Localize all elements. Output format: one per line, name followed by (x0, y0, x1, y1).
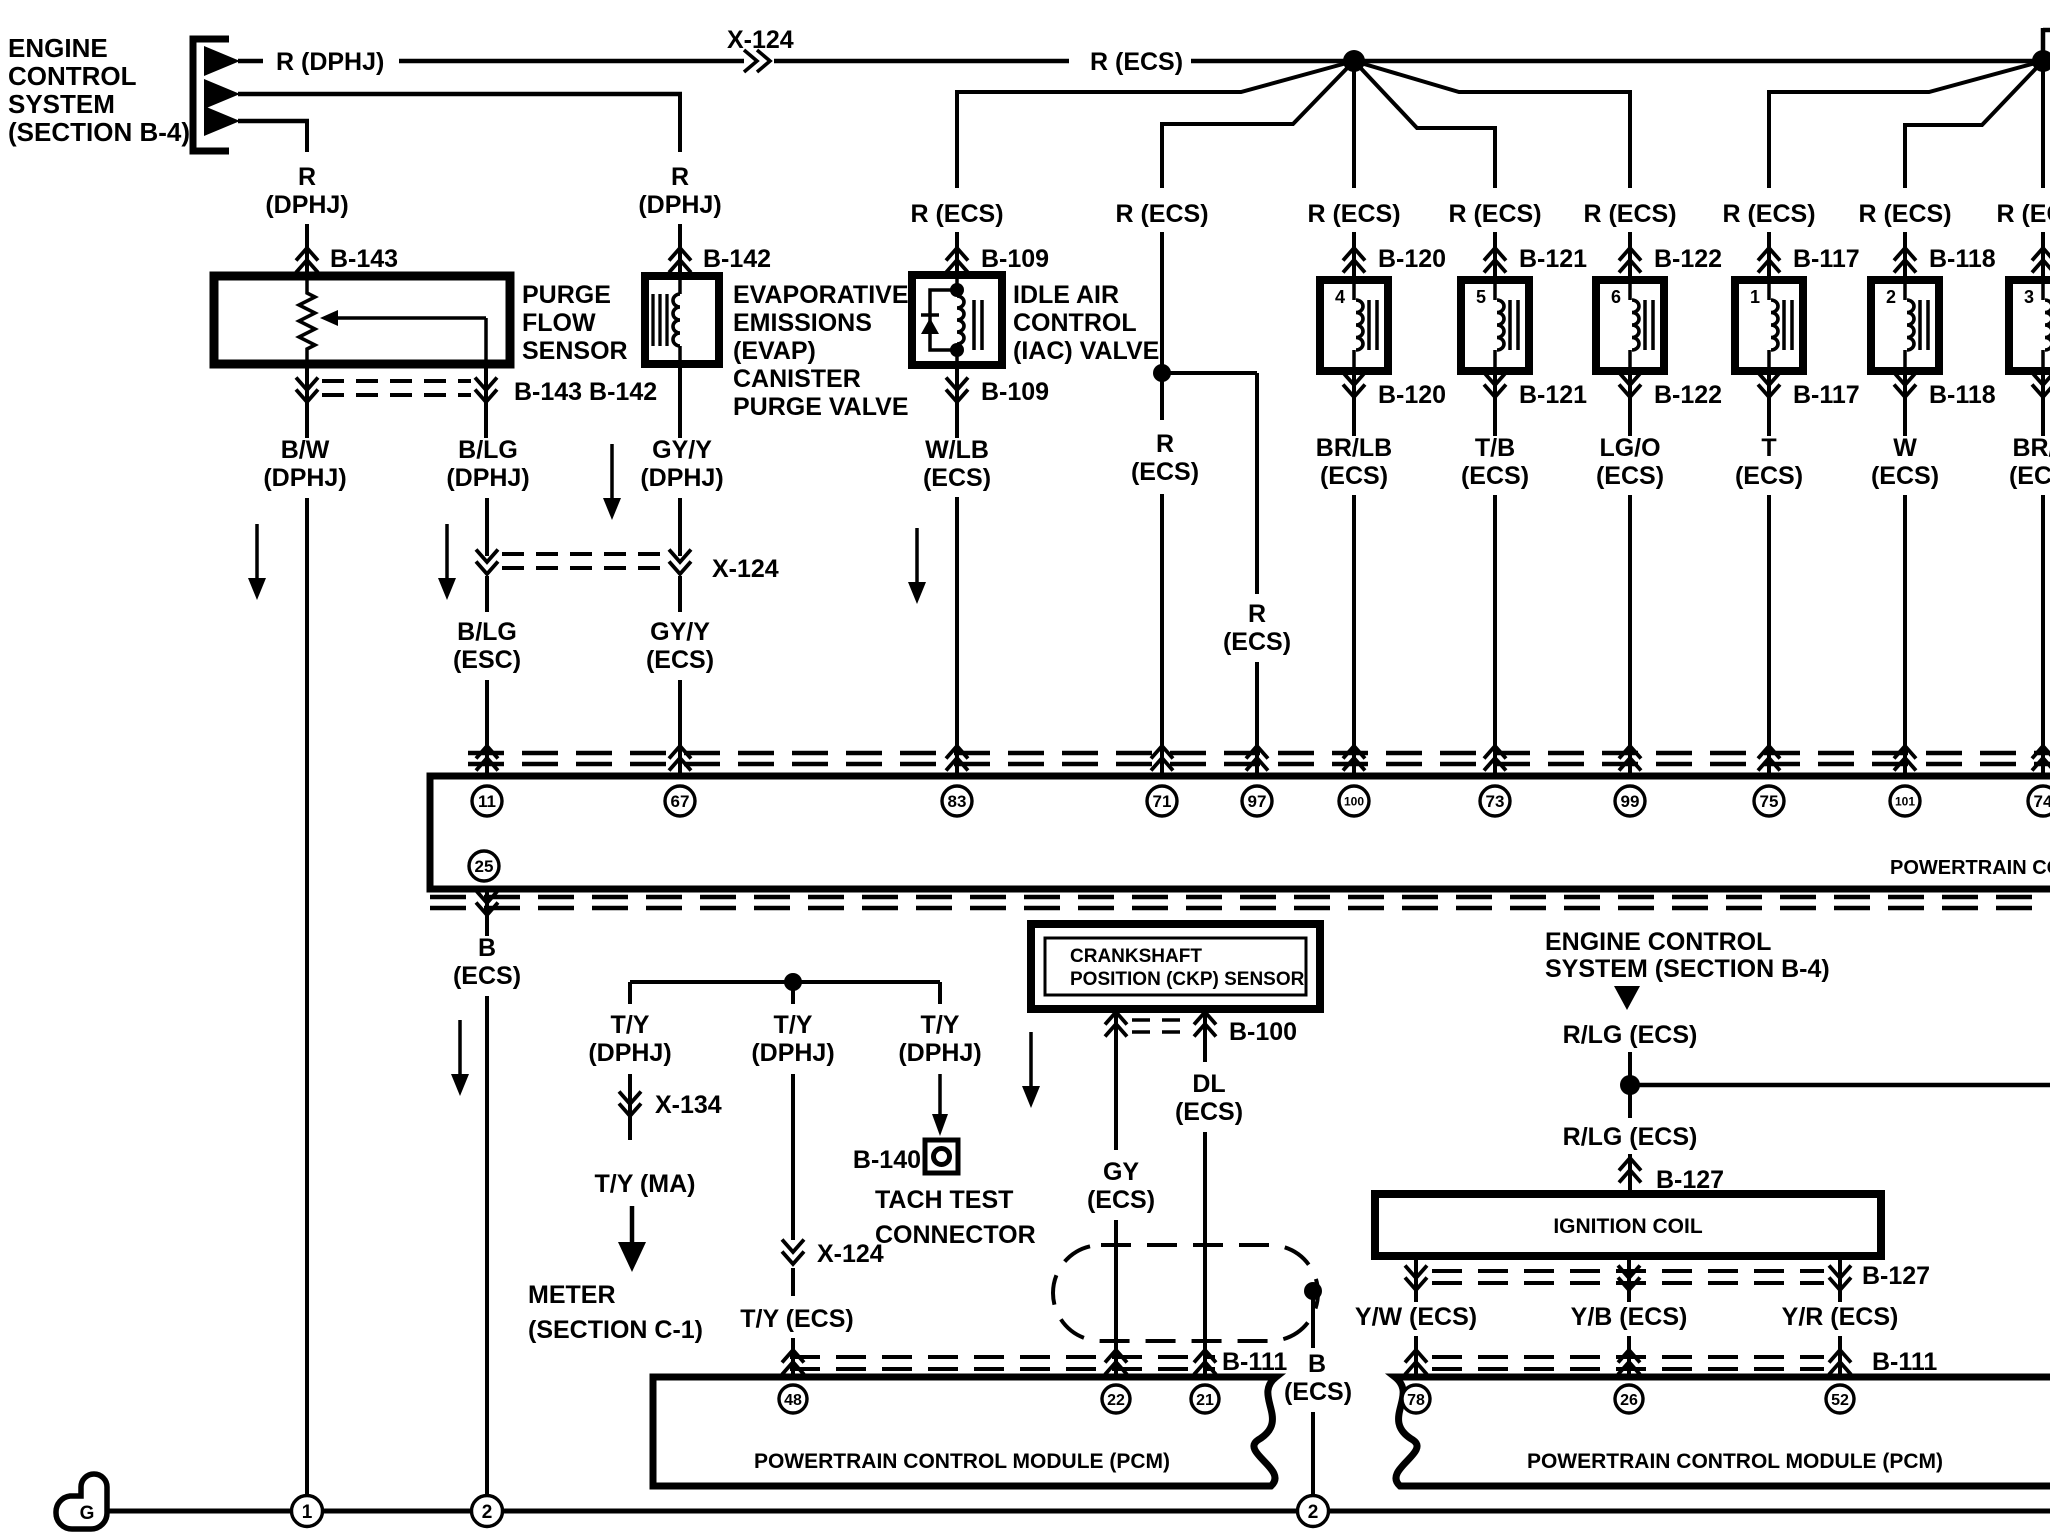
svg-text:W/LB: W/LB (925, 436, 989, 464)
wire injector 4 below (1352, 371, 1356, 436)
svg-text:2: 2 (1308, 1502, 1319, 1523)
svg-text:5: 5 (1476, 287, 1486, 307)
wire W/LB to PCM pin 83 (955, 497, 959, 776)
svg-text:CONNECTOR: CONNECTOR (875, 1221, 1036, 1249)
wire B/LG below sensor (484, 364, 488, 438)
svg-text:B-140: B-140 (853, 1146, 921, 1174)
wire node A to column x1162 (1160, 61, 1354, 124)
svg-text:25: 25 (475, 857, 494, 876)
svg-text:G: G (80, 1503, 95, 1524)
bus chevron at x=487 (476, 746, 498, 759)
injector 5 coil (1497, 300, 1504, 350)
svg-text:B: B (1308, 1350, 1326, 1378)
connector B-119 (bottom) (2032, 373, 2050, 386)
wire B (ECS) to ground pin 2 (485, 996, 489, 1497)
svg-text:SYSTEM: SYSTEM (8, 89, 115, 119)
wire T/Y to X-124 (791, 1074, 795, 1240)
svg-text:2: 2 (482, 1502, 493, 1523)
wire GY/Y to X-124 (678, 498, 682, 556)
wire shield drain B (ECS) (1311, 1291, 1315, 1348)
PCM pin 73 (1480, 786, 1510, 816)
svg-text:ENGINE: ENGINE (8, 33, 108, 63)
node A junction (1343, 50, 1365, 72)
svg-text:T: T (1761, 434, 1776, 462)
wire B (ECS) from pin 25 (485, 889, 489, 936)
bus chevron at x=957 (946, 746, 968, 759)
wire col 957 above connector (955, 232, 959, 276)
svg-text:POWERTRAIN CONTROL MODULE (PCM: POWERTRAIN CONTROL MODULE (PCM) (1527, 1450, 1943, 1473)
svg-text:X-124: X-124 (727, 26, 794, 54)
injector 1 coil (1771, 300, 1778, 350)
svg-text:SENSOR: SENSOR (522, 337, 628, 365)
svg-text:(DPHJ): (DPHJ) (265, 191, 348, 219)
connector X-134 (628, 1074, 632, 1140)
svg-text:FLOW: FLOW (522, 309, 596, 337)
arrow source 2 (204, 79, 240, 109)
powertrain control module (PCM) lower-right bar (1395, 1377, 2050, 1486)
svg-text:T/Y (MA): T/Y (MA) (595, 1170, 696, 1198)
svg-text:R (ECS): R (ECS) (1858, 200, 1951, 228)
wire node B to injector 2 (1903, 61, 2043, 125)
svg-text:4: 4 (1335, 287, 1345, 307)
ground bus wire (104, 1509, 2050, 1514)
connector B-118 (bottom) (1894, 373, 1916, 386)
IAC coil (957, 296, 964, 344)
svg-text:(ECS): (ECS) (453, 962, 521, 990)
EVAP canister purge valve box (645, 276, 719, 364)
wire node A to injector 5 (1354, 61, 1497, 128)
svg-text:B/W: B/W (281, 436, 330, 464)
wire node B to injector 1 (1767, 61, 2043, 92)
svg-text:W: W (1893, 434, 1917, 462)
svg-text:83: 83 (948, 792, 967, 811)
svg-text:B-127: B-127 (1862, 1262, 1930, 1290)
injector 5 core bars (1508, 300, 1512, 350)
svg-text:B-122: B-122 (1654, 381, 1722, 409)
PCM pin 83 (942, 786, 972, 816)
svg-text:B-120: B-120 (1378, 245, 1446, 273)
wire R (DPHJ) row1 stub (238, 59, 263, 64)
wire node A to IAC column (955, 61, 1354, 92)
connector X-124 (col 793) (782, 1240, 804, 1253)
PCM pin 26 (1615, 1385, 1643, 1413)
connector B-117 (bottom) (1758, 373, 1780, 386)
svg-text:R/LG (ECS): R/LG (ECS) (1563, 1123, 1698, 1151)
wire row3 to purge flow sensor (238, 119, 309, 124)
wire row1 to X-124 (399, 59, 744, 64)
fuel injector 2 box (1871, 280, 1939, 371)
fuel injector 5 box (1461, 280, 1529, 371)
connector B-122 (bottom) (1619, 373, 1641, 386)
PCM pin 74 (2028, 786, 2050, 816)
idle air control (IAC) valve box (912, 275, 1002, 365)
svg-text:21: 21 (1196, 1392, 1214, 1409)
svg-text:(ECS): (ECS) (1223, 628, 1291, 656)
svg-text:PURGE: PURGE (522, 281, 611, 309)
direction arrow beside B/W (255, 524, 259, 584)
direction arrow beside B/LG (445, 524, 449, 584)
svg-text:Y/W (ECS): Y/W (ECS) (1355, 1303, 1477, 1331)
svg-text:1: 1 (1750, 287, 1760, 307)
wire injector 6 above connector (1628, 232, 1632, 280)
svg-text:SYSTEM (SECTION B-4): SYSTEM (SECTION B-4) (1545, 955, 1830, 983)
svg-text:BR/B: BR/B (2012, 434, 2050, 462)
svg-text:(ECS): (ECS) (1284, 1378, 1352, 1406)
svg-text:R: R (671, 163, 689, 191)
svg-text:B-127: B-127 (1656, 1166, 1724, 1194)
svg-text:52: 52 (1831, 1392, 1849, 1409)
svg-text:78: 78 (1407, 1392, 1425, 1409)
svg-text:POSITION (CKP) SENSOR: POSITION (CKP) SENSOR (1070, 969, 1305, 990)
crankshaft position (CKP) sensor box (1031, 924, 1320, 1009)
bus chevron at x=1162 (1151, 746, 1173, 759)
svg-text:R (ECS): R (ECS) (1722, 200, 1815, 228)
wire injector 6 below (1628, 371, 1632, 436)
wire node A to injector 6 (1354, 61, 1632, 92)
svg-text:GY: GY (1103, 1158, 1139, 1186)
wire injector 1 to PCM (1767, 495, 1771, 776)
wire top-right exit (2041, 28, 2046, 61)
svg-text:GY/Y: GY/Y (652, 436, 712, 464)
wire injector 3 above connector (2041, 232, 2045, 280)
injector 3 coil (2045, 300, 2050, 350)
wire to tach test connector (938, 1074, 942, 1116)
svg-text:(DPHJ): (DPHJ) (588, 1039, 671, 1067)
svg-text:B-121: B-121 (1519, 245, 1587, 273)
connector B-111 (left) dashed bus (790, 1355, 1215, 1359)
svg-text:R (ECS): R (ECS) (1090, 48, 1183, 76)
svg-text:(DPHJ): (DPHJ) (263, 464, 346, 492)
svg-text:IDLE AIR: IDLE AIR (1013, 281, 1119, 309)
svg-text:1: 1 (302, 1502, 313, 1523)
PCM pin 25 (469, 851, 499, 881)
svg-text:T/Y (ECS): T/Y (ECS) (740, 1305, 853, 1333)
svg-text:26: 26 (1620, 1392, 1638, 1409)
direction arrow beside B (ECS) (458, 1020, 462, 1080)
svg-text:(ECS): (ECS) (1461, 462, 1529, 490)
powertrain control module (PCM) lower-left bar (653, 1377, 1276, 1486)
svg-text:R (ECS): R (ECS) (1996, 200, 2050, 228)
PCM pin 101 (1890, 786, 1920, 816)
svg-text:B-117: B-117 (1793, 381, 1860, 409)
svg-text:11: 11 (478, 792, 496, 811)
bus chevron at x=1769 (1758, 746, 1780, 759)
wire injector 1 below (1767, 371, 1771, 436)
wire DL to pin 21 (1203, 1042, 1207, 1062)
PCM pin 100 (1339, 786, 1369, 816)
wire col 1162 to PCM pin 71 (1160, 494, 1164, 776)
connector B-118 (top) (1894, 248, 1916, 261)
PCM pin 78 (1402, 1385, 1430, 1413)
connector B-127 (bottom, three-wire) (1414, 1256, 1418, 1302)
connector bus above PCM (dashed) (468, 751, 2050, 756)
svg-text:67: 67 (671, 792, 690, 811)
svg-text:(ECS): (ECS) (1871, 462, 1939, 490)
arrow from section B-4 (1614, 986, 1640, 1010)
EVAP solenoid core bars (651, 294, 654, 346)
wire col 1162 down (1160, 232, 1164, 420)
svg-text:(DPHJ): (DPHJ) (640, 464, 723, 492)
junction on T/Y header (784, 973, 802, 991)
connector B-122 (top) (1619, 248, 1641, 261)
wire injector 2 above connector (1903, 232, 1907, 280)
svg-text:CONTROL: CONTROL (8, 61, 137, 91)
svg-text:(ECS): (ECS) (1131, 458, 1199, 486)
wire injector 4 above connector (1352, 232, 1356, 280)
wire R/LG branch to right edge (1630, 1083, 2050, 1088)
connector B-111 (right, three-wire) (1414, 1336, 1418, 1379)
ground pin 1 (292, 1496, 323, 1527)
svg-text:R (ECS): R (ECS) (1583, 200, 1676, 228)
arrow source 1 (204, 46, 240, 76)
wire injector 5 to PCM (1493, 495, 1497, 776)
svg-text:3: 3 (2024, 287, 2034, 307)
direction arrow beside GY/Y (610, 444, 614, 504)
wire T/Y header (630, 980, 940, 984)
connector B-109 (bottom) (946, 378, 968, 391)
PCM pin 22 (1102, 1385, 1130, 1413)
svg-text:DL: DL (1192, 1070, 1225, 1098)
svg-text:T/Y: T/Y (774, 1011, 813, 1039)
fuel injector 1 box (1735, 280, 1803, 371)
fuel injector 3 box (2009, 280, 2050, 371)
ignition coil box (1375, 1194, 1881, 1256)
svg-text:R: R (1248, 600, 1266, 628)
wire GY/Y below EVAP (678, 364, 682, 438)
svg-text:R/LG (ECS): R/LG (ECS) (1563, 1021, 1698, 1049)
bus chevron at x=1495 (1484, 746, 1506, 759)
PCM pin 71 (1147, 786, 1177, 816)
wire T/Y (ECS) to pin 48 (791, 1268, 795, 1296)
svg-text:B-118: B-118 (1929, 381, 1996, 409)
connector X-124 (two-wire) (476, 550, 498, 563)
resistor (purge flow sensor element) (299, 280, 315, 360)
svg-text:99: 99 (1621, 792, 1640, 811)
injector 1 core bars (1782, 300, 1786, 350)
injector 6 coil (1632, 300, 1639, 350)
connector B-121 (bottom) (1484, 373, 1506, 386)
PCM pin 11 (472, 786, 502, 816)
wire injector 6 to PCM (1628, 495, 1632, 776)
svg-text:71: 71 (1153, 792, 1172, 811)
svg-text:B-109: B-109 (981, 245, 1049, 273)
svg-text:Y/R (ECS): Y/R (ECS) (1782, 1303, 1899, 1331)
svg-text:T/Y: T/Y (611, 1011, 650, 1039)
PCM pin 48 (779, 1385, 807, 1413)
svg-text:X-124: X-124 (712, 555, 779, 583)
svg-text:R (ECS): R (ECS) (1307, 200, 1400, 228)
bus chevron at x=680 (669, 746, 691, 759)
svg-text:2: 2 (1886, 287, 1896, 307)
svg-text:T/Y: T/Y (921, 1011, 960, 1039)
svg-text:73: 73 (1486, 792, 1505, 811)
svg-text:75: 75 (1760, 792, 1779, 811)
PCM pin 67 (665, 786, 695, 816)
connector B-120 (top) (1343, 248, 1365, 261)
svg-text:CANISTER: CANISTER (733, 365, 861, 393)
svg-text:B/LG: B/LG (458, 436, 518, 464)
direction arrow beside W/LB (915, 528, 919, 588)
svg-text:R: R (298, 163, 316, 191)
connector B-109 (top) (946, 248, 968, 261)
injector 2 core bars (1918, 300, 1922, 350)
svg-text:101: 101 (1895, 794, 1915, 808)
wire GY/Y (ECS) to PCM pin 67 (678, 576, 682, 612)
fuel injector 4 box (1320, 280, 1388, 371)
connector B-140 (tach test) (925, 1140, 958, 1173)
svg-text:TACH TEST: TACH TEST (875, 1186, 1013, 1214)
EVAP solenoid coil (673, 294, 680, 346)
PCM pin 52 (1826, 1385, 1854, 1413)
svg-text:B: B (478, 934, 496, 962)
svg-text:B-142: B-142 (703, 245, 771, 273)
svg-text:CONTROL: CONTROL (1013, 309, 1137, 337)
connector bus below PCM (dashed) (430, 895, 2050, 900)
shield loop (dashed stadium) around CKP wires (1053, 1245, 1318, 1341)
wire col 680 above connector (678, 224, 682, 276)
wire B/W below sensor (305, 360, 309, 438)
wire GY to pin 22 (1114, 1042, 1118, 1150)
svg-text:X-134: X-134 (655, 1091, 722, 1119)
svg-text:R (ECS): R (ECS) (1448, 200, 1541, 228)
svg-text:R (DPHJ): R (DPHJ) (276, 48, 384, 76)
svg-text:B-100: B-100 (1229, 1018, 1297, 1046)
connector B-143 (bottom, two-wire) (296, 378, 318, 391)
wire injector 4 to PCM (1352, 495, 1356, 776)
connector B-121 (top) (1484, 248, 1506, 261)
svg-text:IGNITION COIL: IGNITION COIL (1553, 1215, 1703, 1238)
svg-text:B-111: B-111 (1222, 1348, 1287, 1376)
wire node B to injector 3 (2041, 61, 2045, 188)
svg-text:R (ECS): R (ECS) (910, 200, 1003, 228)
wire R/LG (1628, 1052, 1632, 1118)
svg-text:(ECS): (ECS) (1087, 1186, 1155, 1214)
svg-text:B-121: B-121 (1519, 381, 1587, 409)
wire B/LG (ESC) to PCM pin 11 (485, 576, 489, 612)
wire col 1257 down (1255, 373, 1259, 594)
svg-text:CRANKSHAFT: CRANKSHAFT (1070, 946, 1202, 967)
connector B-142 (top) (669, 248, 691, 261)
injector 6 core bars (1643, 300, 1647, 350)
svg-text:(IAC) VALVE: (IAC) VALVE (1013, 337, 1159, 365)
svg-text:METER: METER (528, 1281, 616, 1309)
fuel injector 6 box (1596, 280, 1664, 371)
svg-text:(ECS): (ECS) (2009, 462, 2050, 490)
svg-text:(ECS): (ECS) (1175, 1098, 1243, 1126)
svg-text:GY/Y: GY/Y (650, 618, 710, 646)
svg-text:6: 6 (1611, 287, 1621, 307)
svg-text:EMISSIONS: EMISSIONS (733, 309, 872, 337)
ground pin 2 (right) (1298, 1496, 1329, 1527)
wire injector 2 to PCM (1903, 495, 1907, 776)
bus chevron at x=1257 (1246, 746, 1268, 759)
wire injector 2 below (1903, 371, 1907, 436)
wire B/LG to X-124 (485, 498, 489, 556)
connector B-119 (top) (2032, 248, 2050, 261)
svg-text:(SECTION C-1): (SECTION C-1) (528, 1316, 703, 1344)
svg-text:B-111: B-111 (1872, 1348, 1937, 1376)
svg-text:R (ECS): R (ECS) (1115, 200, 1208, 228)
bus chevron at x=1354 (1343, 746, 1365, 759)
svg-text:(ESC): (ESC) (453, 646, 521, 674)
svg-text:EVAPORATIVE: EVAPORATIVE (733, 281, 909, 309)
svg-text:B-120: B-120 (1378, 381, 1446, 409)
connector B-143 (top) (296, 248, 318, 261)
svg-text:(DPHJ): (DPHJ) (446, 464, 529, 492)
arrow to meter (630, 1206, 635, 1244)
svg-text:T/B: T/B (1475, 434, 1515, 462)
bus chevron at x=1905 (1894, 746, 1916, 759)
svg-text:(ECS): (ECS) (923, 464, 991, 492)
svg-text:LG/O: LG/O (1599, 434, 1660, 462)
svg-text:74: 74 (2034, 792, 2050, 811)
wire B/W long run to ground pin 1 (305, 498, 309, 1497)
bus chevron at x=2043 (2032, 746, 2050, 759)
connector B-120 (bottom) (1343, 373, 1365, 386)
svg-text:BR/LB: BR/LB (1316, 434, 1392, 462)
wire row1 to fanout nodes (1191, 59, 2043, 64)
svg-text:97: 97 (1248, 792, 1267, 811)
wire branch to col 1257 (1162, 371, 1257, 375)
svg-text:(ECS): (ECS) (1596, 462, 1664, 490)
PCM pin 97 (1242, 786, 1272, 816)
svg-text:ENGINE CONTROL: ENGINE CONTROL (1545, 928, 1771, 956)
svg-text:B-117: B-117 (1793, 245, 1860, 273)
svg-text:POWERTRAIN CONTROL MODULE (PCM: POWERTRAIN CONTROL MODULE (PCM) (754, 1450, 1170, 1473)
node B junction (2032, 50, 2050, 72)
bus chevron at x=1630 (1619, 746, 1641, 759)
svg-text:R: R (1156, 430, 1174, 458)
junction on R/LG (1620, 1075, 1640, 1095)
injector 4 core bars (1367, 300, 1371, 350)
wire injector 3 to PCM (2041, 495, 2045, 776)
wire col 307 above connector (305, 224, 309, 276)
svg-text:B-122: B-122 (1654, 245, 1722, 273)
svg-text:POWERTRAIN CONTROL MODULE (PCM: POWERTRAIN CONTROL MODULE (PCM) (1890, 857, 2050, 879)
arrow source 3 (204, 106, 240, 136)
powertrain control module (upper bar) (430, 776, 2050, 889)
connector B-127 (top) (1628, 1154, 1632, 1194)
wire row2 to EVAP (238, 92, 682, 97)
svg-text:(DPHJ): (DPHJ) (898, 1039, 981, 1067)
wire wiper drop inside box (484, 318, 488, 364)
svg-text:(DPHJ): (DPHJ) (638, 191, 721, 219)
IAC diode branch (930, 290, 957, 350)
svg-text:(SECTION B-4): (SECTION B-4) (8, 117, 190, 147)
wire injector 3 below (2041, 371, 2045, 436)
PCM pin 21 (1191, 1385, 1219, 1413)
IAC core bars (972, 300, 976, 350)
bracket for engine control system feeds (193, 39, 229, 151)
injector 2 coil (1907, 300, 1914, 350)
node junction at 1162,372 (1153, 364, 1171, 382)
svg-text:(ECS): (ECS) (1320, 462, 1388, 490)
svg-text:B-109: B-109 (981, 378, 1049, 406)
wiper arrow of purge flow sensor (338, 316, 486, 320)
svg-text:B-143 B-142: B-143 B-142 (514, 378, 657, 406)
wire injector 5 below (1493, 371, 1497, 436)
PCM pin 75 (1754, 786, 1784, 816)
svg-text:(ECS): (ECS) (1735, 462, 1803, 490)
svg-text:PURGE VALVE: PURGE VALVE (733, 393, 909, 421)
svg-text:(EVAP): (EVAP) (733, 337, 816, 365)
IAC internal junction top (950, 283, 964, 297)
svg-text:B-143: B-143 (330, 245, 398, 273)
svg-text:48: 48 (784, 1392, 802, 1409)
ground pin 2 (left) (472, 1496, 503, 1527)
IAC internal junction bottom (950, 343, 964, 357)
svg-text:100: 100 (1344, 794, 1364, 808)
